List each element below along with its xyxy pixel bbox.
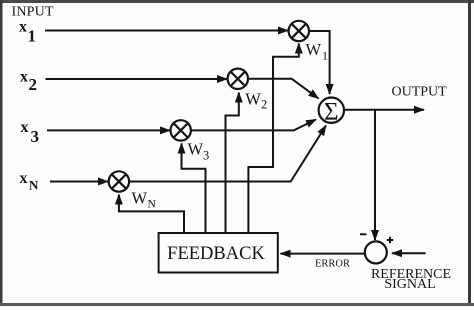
wire weight W2 from feedback bbox=[226, 93, 239, 234]
svg-text:N: N bbox=[148, 199, 157, 211]
svg-text:W: W bbox=[306, 40, 322, 59]
wire xN bbox=[50, 181, 108, 183]
svg-text:N: N bbox=[29, 178, 39, 193]
wire M3 output to summer bbox=[191, 120, 316, 131]
svg-text:2: 2 bbox=[261, 98, 267, 112]
svg-text:ERROR: ERROR bbox=[315, 259, 350, 270]
svg-text:W: W bbox=[188, 140, 204, 159]
frame bottom bbox=[0, 303, 474, 306]
summer S1 bbox=[319, 98, 344, 126]
wire M2 output to summer bbox=[248, 79, 318, 99]
wire reference input bbox=[392, 252, 426, 254]
svg-text:1: 1 bbox=[322, 49, 328, 63]
wire error bbox=[281, 253, 366, 255]
wire weight W1 from feedback bbox=[248, 44, 298, 234]
svg-text:x: x bbox=[19, 19, 27, 36]
wire x3 bbox=[47, 129, 170, 131]
wire MN output to summer bbox=[129, 126, 326, 182]
wire M1 output to summer bbox=[309, 31, 330, 94]
svg-text:3: 3 bbox=[203, 149, 209, 163]
svg-text:INPUT: INPUT bbox=[12, 5, 54, 20]
wire output feedback branch to comparator bbox=[374, 110, 376, 240]
multiplier M3 bbox=[171, 120, 191, 140]
svg-text:x: x bbox=[21, 119, 29, 136]
label plus bbox=[387, 237, 393, 243]
svg-text:OUTPUT: OUTPUT bbox=[392, 85, 448, 100]
multiplier MN bbox=[109, 171, 129, 191]
svg-text:x: x bbox=[20, 170, 28, 187]
svg-text:FEEDBACK: FEEDBACK bbox=[167, 244, 265, 264]
frame top bbox=[0, 0, 474, 3]
svg-text:x: x bbox=[20, 69, 28, 86]
frame right bbox=[468, 0, 471, 306]
wire weight W3 from feedback bbox=[182, 144, 206, 234]
wire weight WN from feedback bbox=[119, 195, 184, 234]
wire x2 bbox=[46, 78, 228, 80]
multiplier M1 bbox=[289, 21, 309, 41]
svg-text:SIGNAL: SIGNAL bbox=[384, 277, 435, 292]
wire output bbox=[344, 109, 424, 111]
block FEEDBACK bbox=[159, 233, 278, 273]
svg-text:1: 1 bbox=[28, 27, 37, 46]
comparator C1 bbox=[365, 241, 387, 263]
svg-text:2: 2 bbox=[29, 75, 38, 94]
svg-text:3: 3 bbox=[31, 127, 40, 146]
multiplier M2 bbox=[228, 69, 248, 89]
frame left bbox=[0, 0, 3, 306]
label minus bbox=[360, 233, 367, 235]
svg-text:W: W bbox=[245, 89, 261, 108]
svg-text:W: W bbox=[132, 189, 148, 208]
svg-text:Σ: Σ bbox=[324, 98, 339, 125]
wire x1 bbox=[45, 30, 288, 32]
